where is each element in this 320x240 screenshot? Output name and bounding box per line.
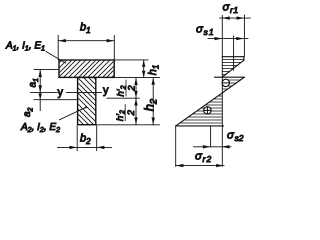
leader line A1 to flange [46,52,66,64]
leader line A2 to web [60,108,86,120]
svg-text:b1: b1 [80,22,91,36]
stress diagram bottom edge [176,125,224,127]
a2 reference line (web centroid) [34,99,78,101]
web hatching [72,56,100,146]
sigma s1 extension line [233,36,235,70]
svg-text:h2: h2 [142,98,160,111]
sigma s1 dimension line [208,38,248,40]
dimension b1 extension lines [58,36,114,60]
stress diagram right edge [243,57,245,61]
sigma s2 extension line [210,127,212,148]
a2 arrow [39,94,42,100]
plus circle [204,107,211,114]
dimension b2 line [58,146,112,148]
dimension b1 arrows [58,39,114,42]
label h2'/2 upper (rotated fraction) [116,80,138,97]
stress diagram zero axis [221,15,223,166]
web compression zone hatching [222,80,240,92]
svg-text:b2: b2 [80,133,91,147]
h2 arrows [152,78,155,125]
svg-text:σs1: σs1 [196,24,215,38]
svg-text:h1: h1 [147,65,161,76]
dimension b2 outside arrows [70,146,105,149]
flange A1 outline [59,60,114,77]
flange hatching [37,52,137,85]
svg-text:σr2: σr2 [195,151,212,165]
svg-text:2: 2 [126,109,137,116]
h1 dimension line [143,60,145,78]
sigma s2 dimension line [194,146,232,148]
svg-text:y: y [103,85,109,97]
a1 reference line (flange centroid) [34,68,59,70]
right reference line seam [115,76,160,78]
svg-text:a1: a1 [28,78,41,88]
label h2'/2 lower (rotated fraction) [115,105,137,122]
dimension b2 extension lines [77,126,97,151]
flange stress slant line [223,60,244,77]
h2'/2 chain dimension line [135,77,137,124]
svg-text:A1, I1, E1: A1, I1, E1 [5,41,45,53]
svg-text:2: 2 [127,85,138,92]
y-y axis line through web [66,91,101,93]
sigma r2 dimension line [176,165,224,167]
right reference line flange top [115,59,149,61]
right reference line bottom [96,124,159,126]
right reference line mid (h2'/2) [107,97,139,99]
leader dot A2 [85,106,87,108]
a dimension vertical line [39,69,41,110]
h2'/2 chain arrows [134,78,137,124]
tension zone hatching [180,96,222,123]
sigma s2 outside arrows [203,145,230,148]
stress diagram top edge [222,56,244,58]
web stress line (hypotenuse) [176,77,245,126]
flange zone hatching [222,60,244,75]
sigma s1 arrows [215,37,244,40]
bottom left extension line [175,127,177,167]
sigma r2 arrows [176,164,224,167]
web A2 outline [78,77,96,124]
sigma r1 dimension line [220,17,251,19]
a1 arrows [39,70,42,93]
y-y axis line left segment [31,91,58,93]
svg-text:σs2: σs2 [227,130,244,144]
svg-text:a2: a2 [22,107,35,117]
minus circle [222,79,229,86]
h2 dimension line [152,78,154,125]
sigma r1 arrows [222,16,244,19]
svg-text:A2, I2, E2: A2, I2, E2 [20,122,60,134]
dimension b1 line [58,40,114,42]
svg-text:σr1: σr1 [223,2,239,16]
h1 arrows [142,60,145,77]
sigma r1 right extension line [243,15,245,57]
seam line [215,76,245,78]
svg-text:y: y [58,87,64,99]
